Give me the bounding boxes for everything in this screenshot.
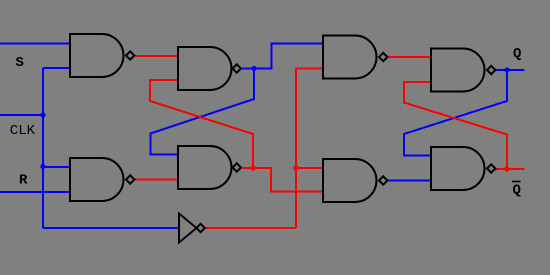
NAND gate U1 bbox=[70, 34, 134, 77]
inverter U9 bbox=[179, 214, 205, 243]
wire U6 out to U8 pin2 bbox=[387, 180, 430, 182]
node U4 output junction bbox=[250, 165, 255, 170]
NAND gate U6 bbox=[323, 159, 387, 202]
wire U4 out to U6 pin2 bbox=[242, 168, 322, 192]
wire U7 out cross to U8 pin1 bbox=[404, 70, 507, 156]
wire Q output bbox=[495, 69, 525, 71]
node Q junction bbox=[504, 67, 509, 72]
NAND gate U3 bbox=[178, 47, 241, 90]
node CLK-U2 junction bbox=[40, 164, 45, 169]
wire U4 out cross to U3 pin2 bbox=[150, 80, 253, 168]
svg-text:S: S bbox=[16, 55, 24, 71]
wire CLK to U2 pin1 bbox=[43, 166, 70, 168]
node CLKbar-U6 junction bbox=[293, 165, 298, 170]
NAND gate U8 bbox=[431, 147, 495, 190]
svg-text:Q: Q bbox=[513, 183, 521, 199]
node CLK-S junction bbox=[40, 112, 45, 117]
svg-text:Q: Q bbox=[513, 46, 521, 62]
wire CLK to U1 pin2 bbox=[43, 67, 70, 69]
node Qbar junction bbox=[504, 166, 509, 171]
NAND gate U7 bbox=[431, 49, 495, 92]
label Qbar bbox=[512, 181, 521, 199]
wire U5 out to U7 pin1 bbox=[388, 56, 431, 58]
wire CLKbar to U5 pin2 bbox=[296, 69, 322, 229]
wire CLK input bbox=[0, 114, 43, 116]
wire U1 out to U3 pin1 bbox=[135, 55, 178, 57]
svg-text:R: R bbox=[19, 173, 28, 189]
node U3 output junction bbox=[251, 66, 256, 71]
wire CLKbar to U6 pin1 bbox=[296, 167, 322, 169]
wire U8 out cross to U7 pin2 bbox=[404, 82, 507, 169]
wire R input bbox=[0, 191, 70, 193]
wire inverter out bbox=[205, 227, 296, 229]
NAND gate U4 bbox=[178, 146, 241, 189]
wire U2 out to U4 pin2 bbox=[135, 179, 178, 181]
wire CLK vertical bus bbox=[42, 68, 44, 228]
NAND gate U2 bbox=[70, 158, 134, 201]
wire CLK to inverter U9 bbox=[43, 227, 179, 229]
wire S input bbox=[0, 43, 70, 45]
NAND gate U5 bbox=[323, 36, 387, 79]
svg-text:CLK: CLK bbox=[10, 123, 36, 139]
wire U3 out to U5 pin1 bbox=[242, 44, 322, 69]
wire Qbar output bbox=[496, 168, 525, 170]
wire U3 out cross to U4 pin1 bbox=[151, 69, 255, 155]
